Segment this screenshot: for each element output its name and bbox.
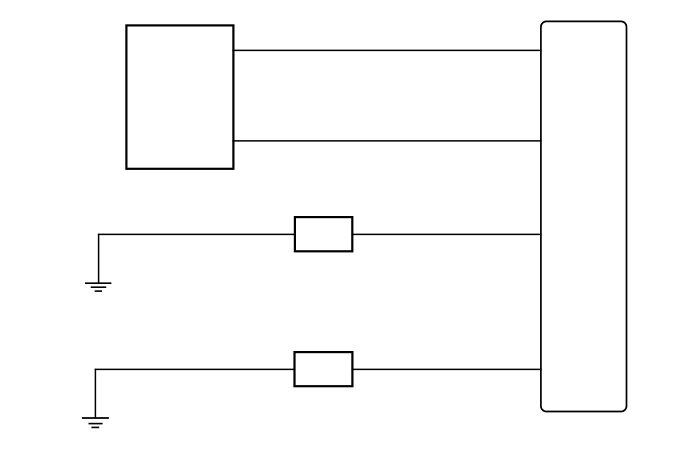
component block (left IC/module)	[126, 25, 233, 168]
connector (right rounded block)	[541, 21, 627, 411]
wire (resistor 1 to connector)	[351, 233, 541, 235]
wire (block pin 2 to connector)	[232, 140, 542, 142]
resistor 1	[295, 217, 352, 251]
wire (ground 2 to resistor 2)	[95, 368, 296, 370]
wire (resistor 2 to connector)	[351, 368, 541, 370]
resistor 2	[295, 352, 353, 386]
ground 1	[85, 234, 111, 291]
wire (ground 1 to resistor 1)	[98, 233, 296, 235]
ground 2	[82, 369, 109, 428]
wire (block pin 1 to connector, top)	[232, 49, 542, 51]
